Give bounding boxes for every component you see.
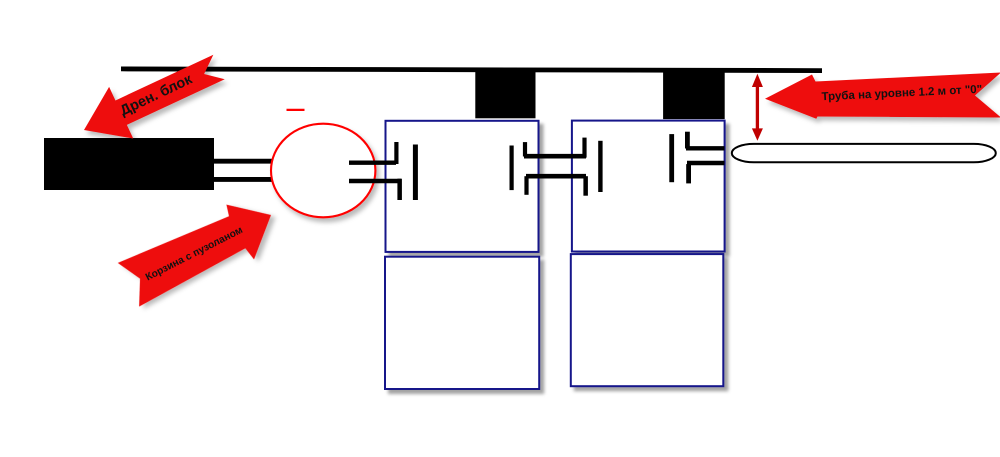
tank box 4 (bottom-right) [571,254,724,386]
pipe left bottom [212,177,275,182]
pump circle [271,124,375,218]
label arrow "Труба на уровне 1.2 м от 0" [765,73,1000,119]
flange connector box2-left: long bar [598,141,602,192]
label arrow "Корзина с пузоланом" [116,189,286,316]
flange connector box1-right: top stub [523,142,527,156]
hanger block right [663,69,725,120]
flange connector box1-right: long bar [510,146,514,191]
flange connector box1-left: long bar [413,145,418,201]
hanger block left [475,68,535,118]
flange connector box1-left: bottom stub [397,179,402,200]
pipe between boxes bottom [526,174,586,179]
pipe mid bottom (circle to box1) [349,179,401,183]
dimension double arrow [752,74,763,141]
tank box 1 (top-left) [386,121,539,252]
pipe mid top (circle to box1) [349,160,396,164]
flange connector box2-left: bottom stub [583,176,588,196]
flange connector box1-right: bottom stub [524,176,528,195]
overhead beam line [121,69,822,71]
flange connector box2-left: top stub [582,138,586,158]
pipe box2 exit top [686,146,725,150]
pipe box2 exit bottom [687,161,725,165]
tank box 2 (top-right) [572,121,725,252]
minus mark [287,109,305,111]
flange connector box1-left: top stub [394,142,398,164]
flange connector box2-right: long bar [669,134,674,182]
pipe left top [212,159,274,164]
label arrow "Дрен. блок" [72,41,231,156]
tank box 3 (bottom-left) [385,257,539,389]
horizontal pipe ellipse [732,144,996,162]
pipe between boxes top [524,154,586,159]
flange connector box2-right: top stub [685,132,690,149]
drain block (black rectangle) [44,138,214,190]
flange connector box2-right: bottom stub [686,164,691,183]
